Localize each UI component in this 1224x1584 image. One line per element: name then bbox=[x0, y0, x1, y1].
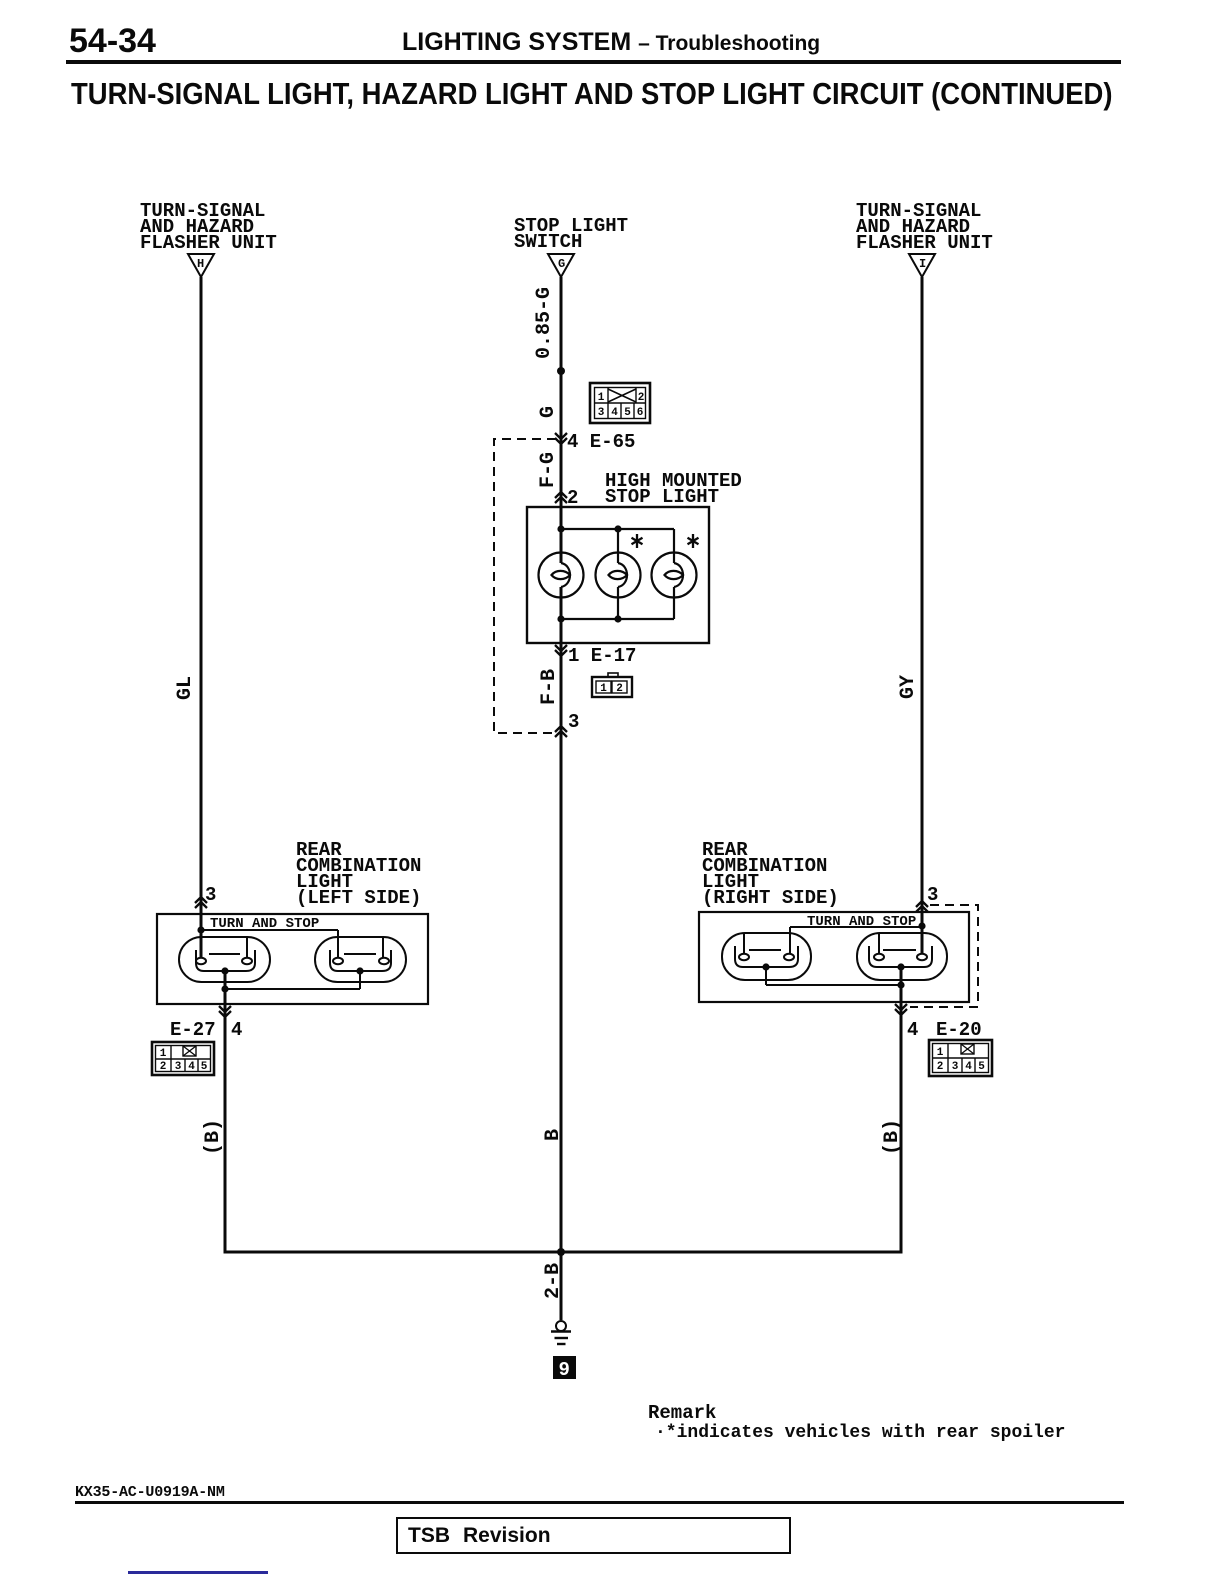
svg-text:I: I bbox=[919, 257, 926, 271]
svg-text:STOP LIGHT: STOP LIGHT bbox=[605, 486, 719, 508]
svg-text:3: 3 bbox=[568, 711, 579, 733]
svg-text:B: B bbox=[542, 1129, 565, 1141]
svg-text:(B): (B) bbox=[881, 1119, 904, 1155]
svg-text:2-B: 2-B bbox=[542, 1263, 565, 1299]
svg-text:5: 5 bbox=[201, 1061, 208, 1073]
svg-text:2: 2 bbox=[160, 1061, 167, 1073]
svg-text:4 E-65: 4 E-65 bbox=[567, 431, 635, 453]
svg-text:2: 2 bbox=[937, 1061, 944, 1073]
svg-text:(RIGHT SIDE): (RIGHT SIDE) bbox=[702, 887, 839, 909]
svg-text:FLASHER UNIT: FLASHER UNIT bbox=[140, 232, 277, 254]
svg-text:1: 1 bbox=[598, 392, 605, 404]
svg-text:2: 2 bbox=[567, 487, 578, 509]
svg-text:5: 5 bbox=[978, 1061, 985, 1073]
svg-text:(B): (B) bbox=[202, 1119, 225, 1155]
svg-text:3: 3 bbox=[175, 1061, 182, 1073]
svg-text:G: G bbox=[558, 257, 565, 271]
svg-text:E-20: E-20 bbox=[936, 1019, 982, 1041]
svg-text:4: 4 bbox=[907, 1019, 918, 1041]
svg-text:2: 2 bbox=[638, 392, 645, 404]
svg-text:H: H bbox=[197, 257, 204, 271]
svg-text:Remark: Remark bbox=[648, 1402, 716, 1424]
svg-text:SWITCH: SWITCH bbox=[514, 231, 582, 253]
svg-text:3: 3 bbox=[952, 1061, 959, 1073]
svg-text:6: 6 bbox=[637, 407, 644, 419]
svg-text:3: 3 bbox=[927, 884, 938, 906]
svg-text:GY: GY bbox=[897, 675, 920, 699]
svg-text:9: 9 bbox=[559, 1359, 570, 1381]
svg-text:4: 4 bbox=[231, 1019, 242, 1041]
svg-text:F-B: F-B bbox=[538, 669, 561, 705]
svg-text:·*indicates vehicles with rear: ·*indicates vehicles with rear spoiler bbox=[655, 1423, 1065, 1443]
svg-text:(LEFT SIDE): (LEFT SIDE) bbox=[296, 887, 421, 909]
svg-text:1: 1 bbox=[160, 1048, 167, 1060]
svg-text:GL: GL bbox=[174, 676, 197, 700]
svg-text:1 E-17: 1 E-17 bbox=[568, 645, 636, 667]
svg-text:4: 4 bbox=[965, 1061, 972, 1073]
svg-text:F-G: F-G bbox=[537, 452, 560, 488]
svg-text:G: G bbox=[537, 406, 560, 418]
svg-text:2: 2 bbox=[616, 683, 623, 695]
svg-text:0.85-G: 0.85-G bbox=[533, 287, 556, 359]
svg-text:4: 4 bbox=[188, 1061, 195, 1073]
svg-text:3: 3 bbox=[598, 407, 605, 419]
svg-text:5: 5 bbox=[624, 407, 631, 419]
svg-text:FLASHER UNIT: FLASHER UNIT bbox=[856, 232, 993, 254]
svg-text:E-27: E-27 bbox=[170, 1019, 216, 1041]
svg-text:1: 1 bbox=[600, 683, 607, 695]
svg-text:1: 1 bbox=[937, 1047, 944, 1059]
svg-text:4: 4 bbox=[611, 407, 618, 419]
